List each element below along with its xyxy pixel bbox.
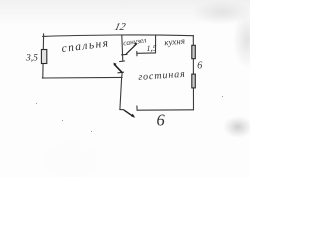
svg-text:кухня: кухня [164,36,186,48]
svg-text:6: 6 [197,61,202,72]
svg-text:1,5: 1,5 [147,44,157,53]
svg-text:6: 6 [157,111,166,130]
svg-text:3,5: 3,5 [25,54,38,64]
